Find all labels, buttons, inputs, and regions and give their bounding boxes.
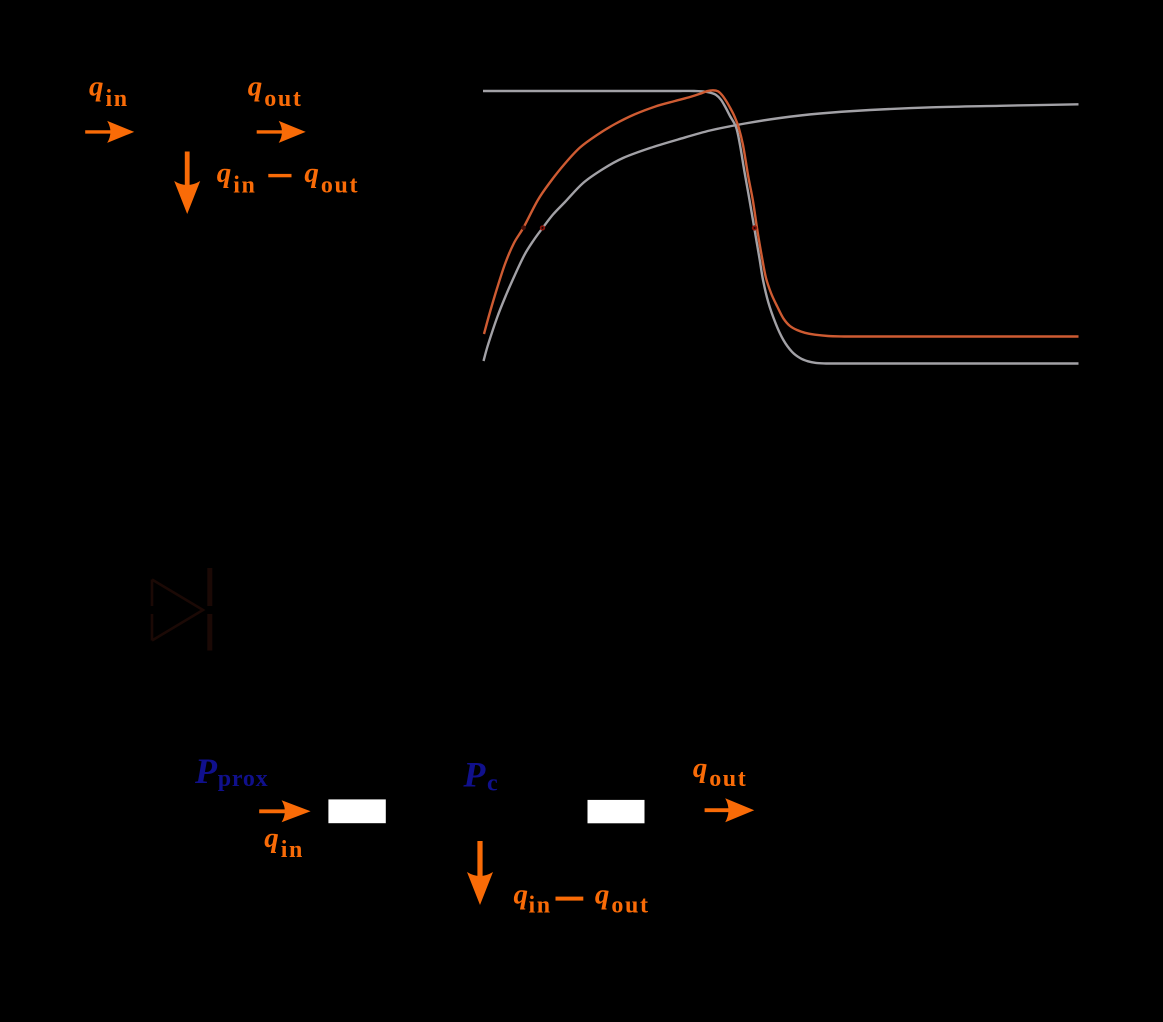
svg-text:out: out [611,893,649,919]
svg-text:in: in [233,173,256,199]
svg-text:P: P [194,751,218,791]
arrow q_out (bottom) [705,808,732,812]
gray slow-rising curve [484,104,1079,361]
marker dot on gray slow curve [540,225,545,230]
arrow down q_in minus q_out (top-left) [185,152,190,189]
svg-text:out: out [709,766,747,792]
marker dot on gray descent [752,225,757,230]
arrow q_out (top-left horizontal) [257,130,285,133]
svg-text:prox: prox [218,766,269,792]
diode cathode bar [207,568,212,651]
gray pulse curve [483,91,1079,364]
svg-text:q: q [595,879,610,911]
svg-text:q: q [248,71,263,103]
arrow q_in (top-left horizontal) [85,130,113,133]
svg-text:q: q [264,822,279,854]
svg-text:out: out [264,86,302,112]
svg-text:in: in [106,86,129,112]
marker dot on orange rise [521,225,526,230]
diode triangle [152,580,203,641]
diode (faint) [152,568,210,651]
arrow q_in (bottom) [259,809,287,813]
orange curve [484,90,1079,336]
svg-text:in: in [529,893,552,919]
svg-text:q: q [304,157,319,189]
arrow down q_in minus q_out (bottom capacitor) [477,841,482,879]
svg-text:q: q [217,157,232,189]
svg-text:q: q [693,752,708,784]
svg-text:in: in [281,837,304,863]
svg-text:out: out [321,173,359,199]
svg-text:P: P [462,755,486,795]
resistor R2 (white box) [588,800,645,823]
resistor R1 (white box) [328,799,385,823]
svg-text:q: q [89,71,104,103]
svg-text:c: c [487,771,498,797]
svg-text:q: q [514,879,529,911]
